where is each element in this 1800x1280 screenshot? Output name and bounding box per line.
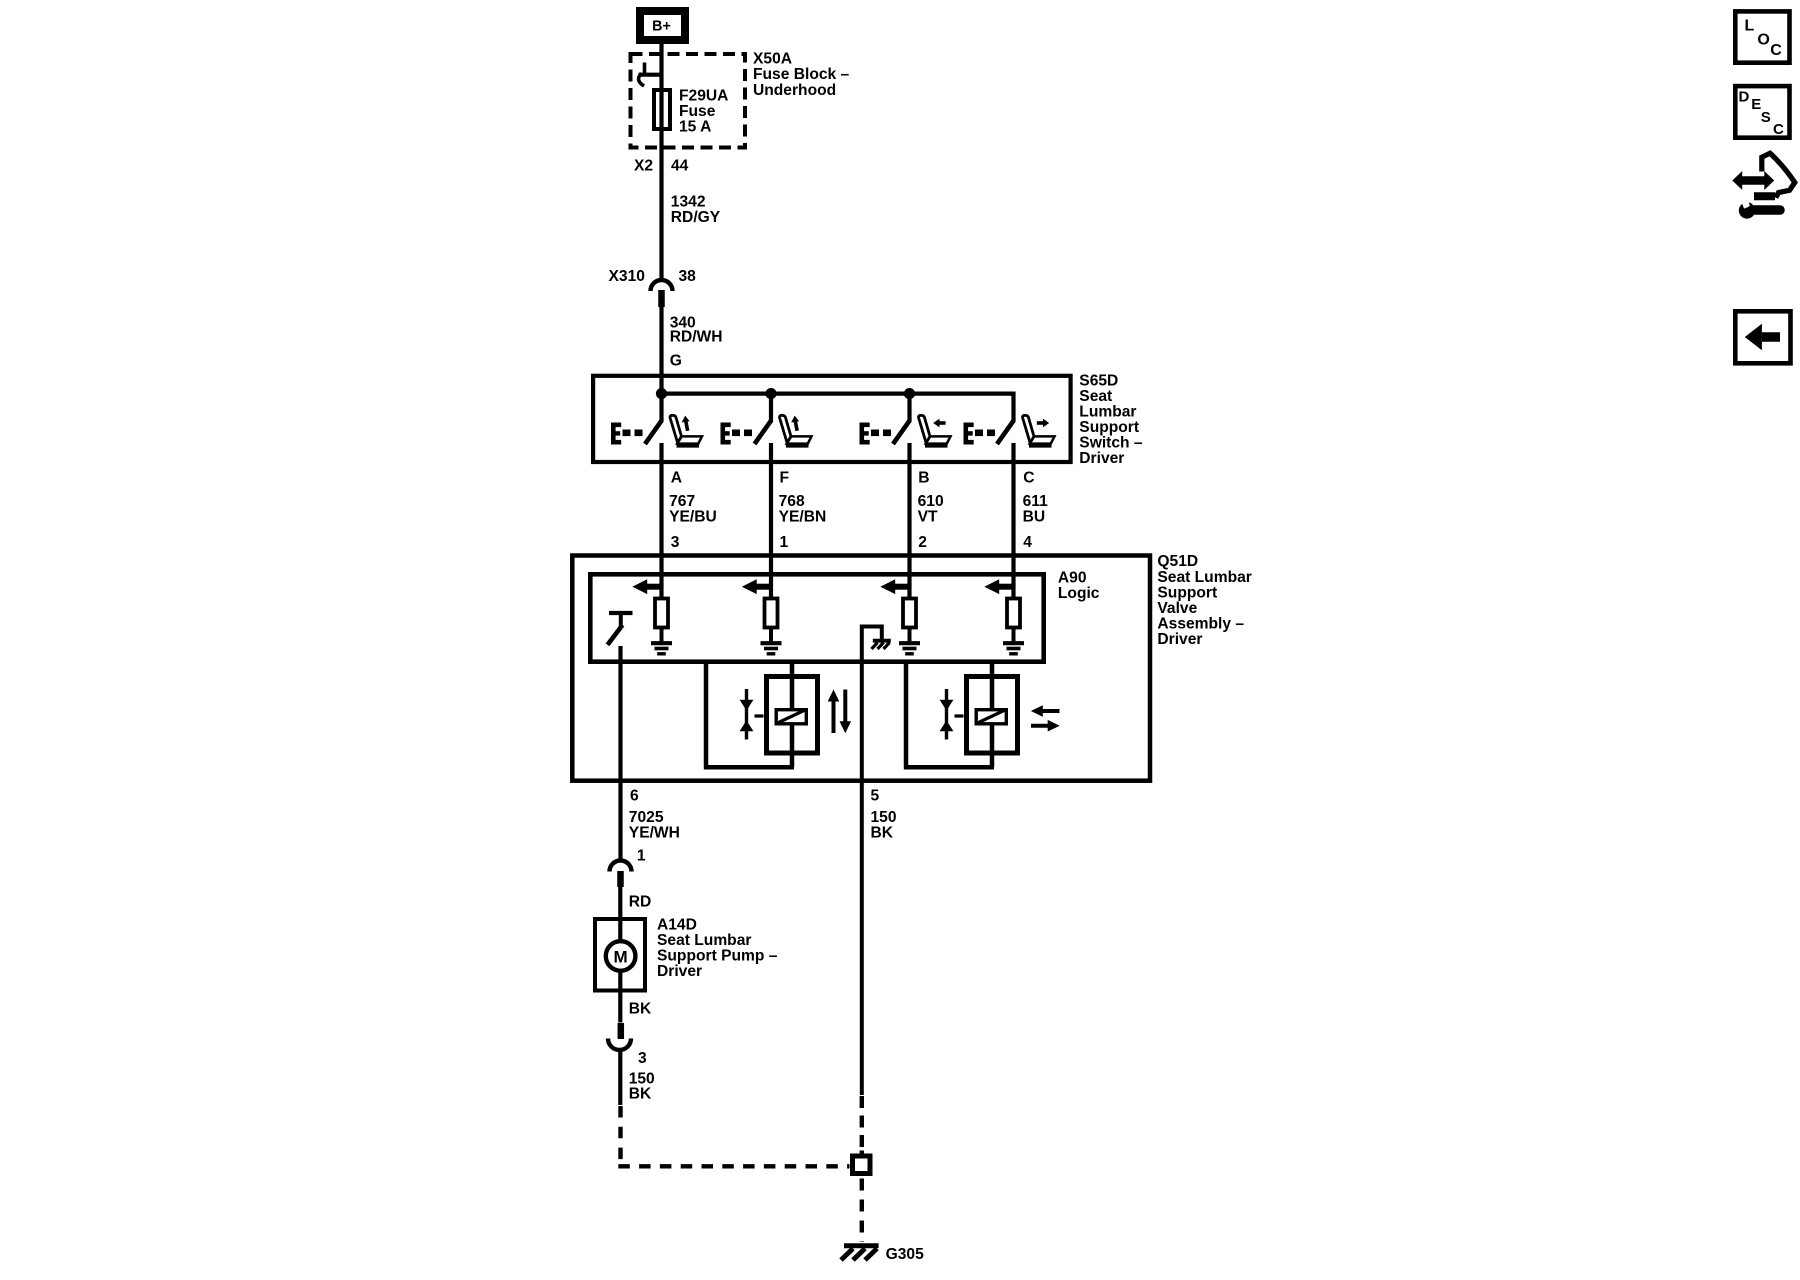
svg-text:Switch –: Switch – xyxy=(1079,435,1143,452)
svg-text:Driver: Driver xyxy=(1157,631,1202,648)
svg-text:RD: RD xyxy=(629,894,652,911)
svg-text:Fuse Block –: Fuse Block – xyxy=(753,66,850,83)
svg-text:YE/WH: YE/WH xyxy=(629,824,680,841)
svg-text:RD/GY: RD/GY xyxy=(671,209,721,226)
svg-text:YE/BU: YE/BU xyxy=(669,508,717,525)
svg-text:6: 6 xyxy=(630,788,639,805)
svg-text:D: D xyxy=(1739,88,1750,105)
svg-text:C: C xyxy=(1770,42,1782,59)
svg-text:Driver: Driver xyxy=(657,963,702,980)
svg-text:4: 4 xyxy=(1023,534,1032,551)
svg-text:O: O xyxy=(1757,32,1769,49)
svg-text:Assembly –: Assembly – xyxy=(1157,616,1244,633)
svg-text:S: S xyxy=(1761,109,1771,126)
svg-text:BK: BK xyxy=(871,824,894,841)
svg-text:S65D: S65D xyxy=(1079,373,1118,390)
svg-text:C: C xyxy=(1023,469,1034,486)
svg-text:X310: X310 xyxy=(609,268,646,285)
svg-text:B: B xyxy=(918,469,929,486)
svg-text:F29UA: F29UA xyxy=(679,88,728,105)
svg-text:G305: G305 xyxy=(886,1246,924,1263)
svg-text:BK: BK xyxy=(629,1001,652,1018)
svg-text:X2: X2 xyxy=(634,158,653,175)
svg-text:Seat: Seat xyxy=(1079,388,1112,405)
svg-text:F: F xyxy=(780,469,790,486)
svg-text:RD/WH: RD/WH xyxy=(670,329,723,346)
svg-text:A: A xyxy=(671,469,682,486)
svg-text:A90: A90 xyxy=(1058,570,1087,587)
svg-text:Seat Lumbar: Seat Lumbar xyxy=(657,932,751,949)
svg-text:Driver: Driver xyxy=(1079,450,1124,467)
svg-text:Support: Support xyxy=(1079,419,1139,436)
svg-text:Underhood: Underhood xyxy=(753,82,836,99)
svg-text:BK: BK xyxy=(629,1086,652,1103)
svg-text:5: 5 xyxy=(871,788,880,805)
svg-text:Q51D: Q51D xyxy=(1157,553,1198,570)
svg-text:1: 1 xyxy=(780,534,789,551)
svg-text:Valve: Valve xyxy=(1157,600,1197,617)
svg-text:Logic: Logic xyxy=(1058,585,1100,602)
svg-text:YE/BN: YE/BN xyxy=(779,508,827,525)
svg-text:G: G xyxy=(670,353,682,370)
svg-text:Fuse: Fuse xyxy=(679,103,716,120)
svg-text:C: C xyxy=(1773,121,1784,138)
svg-text:B+: B+ xyxy=(652,18,671,34)
svg-text:1342: 1342 xyxy=(671,194,706,211)
svg-text:Lumbar: Lumbar xyxy=(1079,404,1136,421)
svg-text:Support Pump –: Support Pump – xyxy=(657,948,778,965)
svg-text:L: L xyxy=(1745,18,1755,35)
svg-text:VT: VT xyxy=(918,508,938,525)
svg-text:1: 1 xyxy=(637,848,646,865)
svg-text:BU: BU xyxy=(1023,508,1046,525)
svg-text:Support: Support xyxy=(1157,584,1217,601)
svg-text:38: 38 xyxy=(679,268,697,285)
svg-text:3: 3 xyxy=(671,534,680,551)
svg-text:Seat Lumbar: Seat Lumbar xyxy=(1157,569,1251,586)
svg-text:2: 2 xyxy=(918,534,927,551)
svg-text:M: M xyxy=(614,947,628,966)
svg-text:15 A: 15 A xyxy=(679,119,711,136)
svg-text:A14D: A14D xyxy=(657,917,697,934)
svg-text:3: 3 xyxy=(638,1050,647,1067)
svg-text:44: 44 xyxy=(671,158,689,175)
svg-text:X50A: X50A xyxy=(753,51,792,68)
